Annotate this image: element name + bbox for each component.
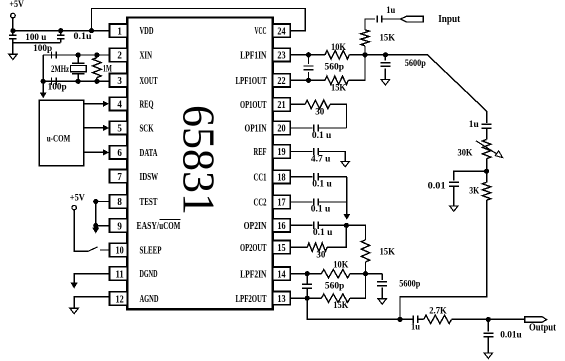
svg-text:LPF2OUT: LPF2OUT xyxy=(236,293,267,305)
svg-text:10: 10 xyxy=(116,245,125,257)
wire pin13 stub xyxy=(290,297,307,299)
pin 14 box xyxy=(273,267,291,280)
resistor R5 3K xyxy=(482,171,490,200)
label u-COM xyxy=(47,135,71,145)
wire pin8-pin9 tie xyxy=(95,202,97,226)
ground xyxy=(9,54,17,59)
wire pin3 stub xyxy=(43,80,109,82)
svg-text:100p: 100p xyxy=(48,82,67,92)
pin 2 box xyxy=(109,48,127,61)
wire pin2 stub xyxy=(43,54,109,56)
label 0.1u cc2 xyxy=(311,204,331,214)
wire to ground xyxy=(12,43,14,55)
svg-text:15: 15 xyxy=(277,242,286,254)
capacitor C3 100p xyxy=(52,51,57,58)
svg-text:SCK: SCK xyxy=(140,123,154,135)
svg-text:CC1: CC1 xyxy=(254,171,267,183)
svg-text:3K: 3K xyxy=(469,185,479,195)
capacitor C7 5600p top xyxy=(380,55,390,80)
svg-text:LPF1IN: LPF1IN xyxy=(240,49,266,61)
resistor R8 15K mid xyxy=(346,225,369,273)
svg-text:15K: 15K xyxy=(333,300,348,310)
svg-text:1u: 1u xyxy=(411,321,420,331)
pin 7 box xyxy=(109,170,127,183)
capacitor C6 1u input xyxy=(377,15,400,22)
node junction at top loop tap xyxy=(89,28,94,33)
node pin13 xyxy=(305,296,310,301)
pin 17 box xyxy=(273,195,291,208)
pin 16 box xyxy=(273,219,291,232)
capacitor C16 5600p bottom xyxy=(377,274,387,299)
label 1u out xyxy=(411,321,420,331)
ground TEST tie xyxy=(92,226,99,234)
ground ref xyxy=(341,161,349,166)
label pin 9 EASY/µCOM xyxy=(137,220,181,233)
svg-text:100 u: 100 u xyxy=(25,32,46,42)
label pin 13 LPF2OUT xyxy=(236,293,267,305)
svg-text:XOUT: XOUT xyxy=(140,75,158,87)
capacitor C15 560p bottom xyxy=(302,274,312,299)
svg-text:0.01u: 0.01u xyxy=(500,330,522,340)
svg-text:DATA: DATA xyxy=(140,147,158,159)
wire nodeA to 5600p xyxy=(365,54,385,56)
wire pin8 stub xyxy=(96,201,110,203)
svg-text:15K: 15K xyxy=(331,83,346,93)
svg-text:24: 24 xyxy=(277,25,286,37)
svg-text:30: 30 xyxy=(315,106,325,116)
label 0.01u out xyxy=(500,330,522,340)
node 5600p top xyxy=(383,52,388,57)
wire pin18 stub xyxy=(290,176,312,178)
label 4.7u xyxy=(311,154,331,164)
label 65831 xyxy=(174,105,225,215)
svg-text:REF: REF xyxy=(254,146,267,158)
label pin 14 LPF2IN xyxy=(240,268,266,280)
node junction at 0.1u tap xyxy=(58,28,63,33)
pin 3 box xyxy=(109,74,127,87)
pin 10 box xyxy=(109,243,127,256)
node junction at +5V rail left xyxy=(10,28,15,33)
label pin 19 REF xyxy=(254,146,267,158)
pin 1 box xyxy=(109,24,127,37)
wire pin20 stub xyxy=(290,127,312,129)
pin 5 box xyxy=(109,121,127,134)
label pin 6 DATA xyxy=(140,147,158,159)
label 2.7K xyxy=(429,306,447,316)
wire crystal caps to ground xyxy=(42,81,44,92)
svg-text:EASY/: EASY/ xyxy=(137,220,160,232)
svg-text:8: 8 xyxy=(117,196,122,208)
svg-text:13: 13 xyxy=(277,293,286,305)
svg-text:9: 9 xyxy=(117,220,122,232)
arrow cc tie to node xyxy=(343,214,350,220)
node pin8 tie xyxy=(93,199,98,204)
node pin3-crystal xyxy=(76,79,81,84)
capacitor C18 0.01u out xyxy=(483,319,493,353)
pin 15 box xyxy=(273,241,291,254)
svg-text:SLEEP: SLEEP xyxy=(140,245,162,257)
ground 0.01 xyxy=(450,206,458,211)
wire +5V rail to pin 1 xyxy=(13,30,110,32)
pin 18 box xyxy=(273,170,291,183)
wire pin22 stub xyxy=(290,79,308,81)
label 10K top xyxy=(331,42,346,52)
label 30 op2 xyxy=(316,250,326,260)
label 100p lower xyxy=(48,82,67,92)
resistor R2 10K xyxy=(309,51,366,59)
svg-text:+5V: +5V xyxy=(9,0,24,10)
label 1u input xyxy=(386,5,395,15)
node mix2 xyxy=(363,271,368,276)
svg-text:560p: 560p xyxy=(325,280,345,290)
svg-text:21: 21 xyxy=(277,99,285,111)
label pin 4 REQ xyxy=(140,98,154,110)
node wiper mix xyxy=(484,169,489,174)
label pin 10 SLEEP xyxy=(140,245,162,257)
label Input xyxy=(438,14,461,25)
pin 6 box xyxy=(109,146,127,159)
capacitor C2 0.1u xyxy=(57,31,65,43)
svg-text:OP1IN: OP1IN xyxy=(245,123,267,135)
node pin23 xyxy=(306,52,311,57)
svg-text:CC2: CC2 xyxy=(254,197,267,209)
svg-text:4: 4 xyxy=(117,99,122,111)
label pin 21 OP1OUT xyxy=(240,99,267,111)
output terminal xyxy=(525,317,547,323)
wire pin16 stub xyxy=(290,224,312,226)
wire +5V to switch xyxy=(74,210,87,252)
svg-text:+5V: +5V xyxy=(70,193,85,203)
wire SCK with arrow xyxy=(84,125,109,131)
svg-text:OP1OUT: OP1OUT xyxy=(240,99,267,111)
label pin 1 VDD xyxy=(140,25,154,37)
u-COM box xyxy=(39,100,83,165)
switch S1 blade xyxy=(87,247,97,252)
ground DGND xyxy=(71,283,78,289)
node pin14 xyxy=(305,271,310,276)
svg-text:2.7K: 2.7K xyxy=(429,306,447,316)
wire wiper to 0.01 xyxy=(454,171,487,180)
label pin 18 CC1 xyxy=(254,171,267,183)
svg-text:15K: 15K xyxy=(379,248,395,258)
svg-text:30K: 30K xyxy=(458,148,473,158)
label pin 22 LPF1OUT xyxy=(236,75,267,87)
svg-text:7: 7 xyxy=(117,171,122,183)
svg-text:0.1 u: 0.1 u xyxy=(313,227,333,237)
node pin2-crystal xyxy=(76,52,81,57)
label 15K bottom xyxy=(333,300,348,310)
label 1u mid xyxy=(469,119,479,129)
label 560p top xyxy=(325,61,345,71)
svg-text:u-COM: u-COM xyxy=(47,135,71,145)
pin 9 box xyxy=(109,219,127,232)
label Output xyxy=(529,322,557,333)
ground 5600p top xyxy=(381,80,389,85)
ground crystal xyxy=(40,92,47,98)
svg-text:OP2OUT: OP2OUT xyxy=(240,242,267,254)
wire top loop to VCC pin 24 xyxy=(92,9,306,31)
svg-text:0.1 u: 0.1 u xyxy=(312,179,332,189)
svg-text:Output: Output xyxy=(529,322,557,333)
capacitor C8 1u mid xyxy=(482,124,492,139)
label pin 3 XOUT xyxy=(140,75,158,87)
svg-text:0.01: 0.01 xyxy=(428,180,447,190)
wire to delay chain diagonal xyxy=(385,55,486,123)
wire DATA with arrow xyxy=(84,149,109,155)
label 15K input xyxy=(380,33,396,43)
node A mix1 xyxy=(362,52,367,57)
svg-text:100p: 100p xyxy=(33,43,52,53)
svg-text:65831: 65831 xyxy=(174,105,225,215)
svg-text:10K: 10K xyxy=(333,259,348,269)
svg-text:560p: 560p xyxy=(325,61,345,71)
label 100u xyxy=(25,32,46,42)
resistor R10 15K bottom xyxy=(307,274,365,303)
svg-text:1: 1 xyxy=(117,25,122,37)
svg-text:5: 5 xyxy=(117,123,122,135)
ground output xyxy=(484,353,492,358)
label 2MHz xyxy=(51,64,69,74)
pin 24 box xyxy=(273,24,291,37)
svg-text:15K: 15K xyxy=(380,33,396,43)
label 560p bottom xyxy=(325,280,345,290)
svg-text:XIN: XIN xyxy=(140,50,153,62)
label 5600p bottom xyxy=(399,279,420,289)
svg-text:REQ: REQ xyxy=(140,98,154,110)
label pin 8 TEST xyxy=(140,196,158,208)
label 10K bottom xyxy=(333,259,348,269)
ground 5600p bottom xyxy=(378,299,386,304)
label pin 7 IDSW xyxy=(140,171,159,183)
wire to output terminal xyxy=(488,318,524,320)
node pin3-1M xyxy=(94,79,99,84)
capacitor C5 560p xyxy=(304,55,314,81)
op-amp IC U1 65831 body xyxy=(127,18,272,310)
capacitor C11 4.7u ref xyxy=(314,148,346,162)
svg-text:0.1u: 0.1u xyxy=(74,31,92,41)
capacitor C4 100p xyxy=(52,78,57,85)
wire pin21 stub xyxy=(290,103,305,105)
label pin 20 OP1IN xyxy=(245,123,267,135)
svg-text:Input: Input xyxy=(438,14,461,25)
wire AGND pin 12 xyxy=(74,297,109,309)
svg-text:2: 2 xyxy=(117,50,122,62)
svg-text:0.1 u: 0.1 u xyxy=(311,204,331,214)
node pin2-1M xyxy=(94,52,99,57)
label 0.1u cc1 xyxy=(312,179,332,189)
label pin 2 XIN xyxy=(140,50,153,62)
svg-text:DGND: DGND xyxy=(140,268,158,280)
capacitor C9 0.01 xyxy=(449,182,459,206)
wire DGND pin 11 xyxy=(74,274,109,284)
wire feedback to output node xyxy=(400,200,487,319)
label 1M xyxy=(103,64,112,74)
label pin 15 OP2OUT xyxy=(240,242,267,254)
pin 12 box xyxy=(109,292,127,305)
resistor R1 1M xyxy=(93,55,101,81)
svg-text:5600p: 5600p xyxy=(399,279,420,289)
svg-text:uCOM: uCOM xyxy=(159,220,180,232)
wire pin9 stub xyxy=(96,225,110,227)
svg-text:LPF2IN: LPF2IN xyxy=(240,268,266,280)
label 0.01 xyxy=(428,180,447,190)
pin 13 box xyxy=(273,292,291,305)
wire pin15 stub xyxy=(290,246,307,248)
svg-text:IDSW: IDSW xyxy=(140,171,159,183)
svg-text:20: 20 xyxy=(277,123,286,135)
label 0.1u xyxy=(74,31,92,41)
svg-text:14: 14 xyxy=(277,268,286,280)
potentiometer VR1 30K xyxy=(476,139,503,168)
svg-text:1M: 1M xyxy=(103,64,112,74)
svg-text:TEST: TEST xyxy=(140,196,158,208)
svg-text:10K: 10K xyxy=(331,42,346,52)
svg-text:AGND: AGND xyxy=(140,293,159,305)
capacitor C12 0.1u cc1 xyxy=(314,173,347,180)
capacitor C13 0.1u cc2 xyxy=(314,198,347,205)
resistor R4 15K input xyxy=(361,19,375,55)
label 30 op1 xyxy=(315,106,325,116)
svg-text:OP2IN: OP2IN xyxy=(244,220,267,232)
svg-text:5600p: 5600p xyxy=(405,58,426,68)
wire cap commons xyxy=(13,42,61,44)
svg-text:18: 18 xyxy=(277,172,286,184)
svg-text:19: 19 xyxy=(277,146,286,158)
svg-text:23: 23 xyxy=(277,50,286,62)
label 15K mid xyxy=(379,248,395,258)
pin 8 box xyxy=(109,195,127,208)
label 30K xyxy=(458,148,473,158)
pin 11 box xyxy=(109,267,127,280)
wire pin13 to output line xyxy=(307,298,400,319)
svg-text:1u: 1u xyxy=(386,5,395,15)
node pin9 tie xyxy=(93,223,98,228)
label pin 16 OP2IN xyxy=(244,220,267,232)
label 5600p top xyxy=(405,58,426,68)
svg-text:12: 12 xyxy=(116,293,125,305)
svg-text:30: 30 xyxy=(316,250,326,260)
+5V terminal 2 xyxy=(70,193,85,210)
wire pin14 stub xyxy=(290,273,307,275)
node pin22 xyxy=(306,78,311,83)
node output mix xyxy=(397,317,402,322)
ground AGND xyxy=(70,308,78,313)
wire switch to SLEEP pin 10 xyxy=(100,249,110,251)
label 0.1u op1 xyxy=(312,130,332,140)
svg-text:6: 6 xyxy=(117,147,122,159)
resistor R7 30 op2 xyxy=(307,225,346,251)
pin 21 box xyxy=(273,98,291,111)
resistor R6 30 xyxy=(305,100,347,128)
svg-text:16: 16 xyxy=(277,220,286,232)
svg-text:17: 17 xyxy=(277,197,286,209)
wire pin23 stub xyxy=(290,54,308,56)
label 3K xyxy=(469,185,479,195)
wire pin19 stub xyxy=(290,151,312,153)
svg-text:11: 11 xyxy=(116,268,124,280)
input terminal xyxy=(401,16,424,22)
label pin 24 VCC xyxy=(255,25,267,37)
label pin 23 LPF1IN xyxy=(240,49,266,61)
capacitor C14 0.1u op2 xyxy=(314,222,347,229)
pin 20 box xyxy=(273,121,291,134)
label pin 5 SCK xyxy=(140,123,154,135)
wire cc caps tie xyxy=(346,177,348,214)
svg-text:0.1 u: 0.1 u xyxy=(312,130,332,140)
crystal X1 2MHz xyxy=(70,55,86,81)
resistor R3 15K xyxy=(309,55,366,85)
svg-text:VDD: VDD xyxy=(140,25,154,37)
svg-text:VCC: VCC xyxy=(255,25,267,37)
pin 23 box xyxy=(273,48,291,61)
svg-text:4.7 u: 4.7 u xyxy=(311,154,331,164)
resistor R9 10K bottom xyxy=(307,270,365,278)
wire 100p left drop xyxy=(42,55,44,81)
wire pin17 stub xyxy=(290,201,312,203)
capacitor C1 100u xyxy=(9,31,17,43)
svg-text:3: 3 xyxy=(117,75,122,87)
svg-text:1u: 1u xyxy=(469,119,479,129)
capacitor C17 1u out xyxy=(400,316,424,323)
label pin 12 AGND xyxy=(140,293,159,305)
pin 22 box xyxy=(273,74,291,87)
+5V supply terminal xyxy=(9,0,24,31)
label 0.1u op2 xyxy=(313,227,333,237)
pin 4 box xyxy=(109,97,127,110)
wire REQ with arrow xyxy=(84,101,109,107)
label 15K lpf1out xyxy=(331,83,346,93)
wire mix2 to 5600p xyxy=(366,273,383,275)
label 100p upper xyxy=(33,43,52,53)
svg-text:LPF1OUT: LPF1OUT xyxy=(236,75,267,87)
svg-text:2MHz: 2MHz xyxy=(51,64,69,74)
node 100p common xyxy=(41,79,46,84)
svg-text:22: 22 xyxy=(277,75,286,87)
pin 19 box xyxy=(273,145,291,158)
node output xyxy=(486,317,491,322)
label pin 11 DGND xyxy=(140,268,158,280)
node op2in xyxy=(344,223,349,228)
resistor R11 2.7K xyxy=(424,315,489,323)
label pin 17 CC2 xyxy=(254,197,267,209)
capacitor C10 0.1u op1 xyxy=(314,124,347,131)
